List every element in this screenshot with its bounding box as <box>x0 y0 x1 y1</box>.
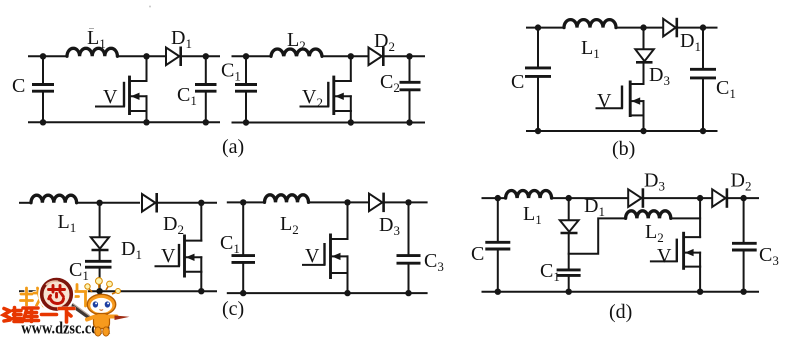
watermark: red text weiku yixia <box>4 308 75 323</box>
capacitor C1 (stage 2 input) <box>221 56 257 122</box>
node: L1/D1/D2 junction <box>96 200 102 206</box>
capacitor C1 (stage 2 input) <box>220 202 255 293</box>
svg-text:D3: D3 <box>644 170 665 194</box>
node: output top junction <box>203 53 209 59</box>
capacitor C3 <box>397 202 444 293</box>
diode D1 (vertical) <box>91 237 142 262</box>
capacitor C <box>471 198 510 292</box>
node: input top junction <box>535 24 541 30</box>
inductor L2 <box>265 195 309 237</box>
svg-text:D1: D1 <box>171 27 192 51</box>
wire: top rail right segment <box>727 197 758 199</box>
diode D1 (vertical) <box>560 195 605 233</box>
node: L1/D1/D3 junction <box>566 195 572 201</box>
label (a) <box>222 136 244 158</box>
node: output bottom junction <box>203 119 209 125</box>
diode D1 <box>663 18 701 54</box>
svg-text:(b): (b) <box>612 138 635 160</box>
watermark: mascot <box>85 278 130 337</box>
capacitor C3 <box>732 198 779 292</box>
node: input bottom junction <box>243 119 249 125</box>
node: L1/drain junction <box>143 53 149 59</box>
svg-text:L2: L2 <box>280 213 299 237</box>
diode D2 <box>369 30 395 66</box>
diode D3 (vertical) <box>635 49 670 88</box>
svg-text:L2: L2 <box>645 221 664 245</box>
svg-text:V: V <box>597 90 612 112</box>
node: source bottom junction <box>344 290 350 296</box>
wire: top rail left segment <box>527 27 564 29</box>
wire: L2 to drain vertical <box>671 217 700 219</box>
node: source bottom junction <box>697 289 703 295</box>
wire: top rail D3 to D2 <box>643 197 712 199</box>
node: source bottom junction <box>348 119 354 125</box>
watermark: magnifier handle <box>66 300 91 319</box>
transistor V (MOSFET) <box>96 56 147 122</box>
svg-text:C1: C1 <box>177 84 197 108</box>
svg-text:V: V <box>103 86 118 108</box>
wire: tee branch to L2 <box>569 218 626 253</box>
node: output top junction <box>700 24 706 30</box>
wire: top rail right segment <box>157 202 216 204</box>
wire: bottom rail <box>233 122 425 124</box>
capacitor C1 <box>540 260 581 292</box>
node: output top junction <box>405 199 411 205</box>
node: L2/drain junction <box>348 53 354 59</box>
node: source bottom junction <box>143 119 149 125</box>
label (b) <box>612 138 635 160</box>
wire: D3 cathode to drain <box>643 62 645 84</box>
wire: top rail middle segment <box>322 55 369 57</box>
watermark: character pian <box>70 285 87 307</box>
svg-text:L1: L1 <box>581 37 600 61</box>
svg-text:D1: D1 <box>121 238 142 262</box>
node: input top junction <box>40 53 46 59</box>
wire: top rail middle segment <box>552 197 629 199</box>
wire: bottom rail <box>483 291 759 293</box>
node: input bottom junction <box>40 119 46 125</box>
wire: bottom rail <box>228 292 427 294</box>
svg-text:V: V <box>161 245 176 267</box>
node: L2/drain junction <box>344 199 350 205</box>
inductor L1 <box>564 20 616 61</box>
wire: top rail middle segment <box>117 55 166 57</box>
inductor L2 <box>271 29 322 56</box>
svg-text:C1: C1 <box>716 77 736 101</box>
wire: bottom rail <box>20 290 216 292</box>
capacitor C2 <box>380 56 421 122</box>
diode D1 <box>166 27 192 66</box>
capacitor C1 <box>69 250 112 291</box>
svg-text:C3: C3 <box>424 250 444 274</box>
svg-text:L1: L1 <box>523 203 542 227</box>
wire: top rail left segment <box>228 201 265 203</box>
svg-text:(c): (c) <box>222 298 244 320</box>
inductor L1 <box>506 191 552 227</box>
svg-text:C: C <box>12 75 25 97</box>
node: output bottom junction <box>406 119 412 125</box>
node: C1 bottom junction <box>96 288 102 294</box>
diode D3 <box>628 170 665 208</box>
svg-text:D2: D2 <box>374 30 395 54</box>
speck artifact top <box>89 6 151 29</box>
svg-text:C3: C3 <box>759 244 779 268</box>
svg-text:(d): (d) <box>609 301 632 323</box>
transistor V (MOSFET) <box>597 81 644 132</box>
node: output bottom junction <box>740 289 746 295</box>
node: output top junction <box>406 53 412 59</box>
svg-text:V2: V2 <box>302 86 323 110</box>
wire: drain vertical <box>699 198 701 237</box>
svg-text:C1: C1 <box>220 232 240 256</box>
node: drain top junction <box>198 200 204 206</box>
wire: top rail left segment <box>233 55 272 57</box>
svg-text:D2: D2 <box>163 213 184 237</box>
transistor V (MOSFET) <box>303 202 348 293</box>
wire: D1 anode lead <box>568 198 570 220</box>
node: input bottom junction <box>535 128 541 134</box>
wire: top rail right segment <box>181 55 219 57</box>
wire: top rail right segment <box>677 27 717 29</box>
wire: bottom rail <box>29 121 219 123</box>
node: C1 bottom junction <box>566 289 572 295</box>
wire: top rail right segment <box>384 201 427 203</box>
watermark: character zhao <box>21 288 46 309</box>
node: drain top junction <box>697 195 703 201</box>
inductor L2 <box>626 211 671 245</box>
capacitor C1 (stage 1 output) <box>177 56 217 122</box>
wire: bottom rail <box>527 130 717 132</box>
wire: top rail middle segment <box>616 27 663 29</box>
svg-text:V: V <box>305 245 320 267</box>
wire: top rail left segment <box>483 197 506 199</box>
watermark: magnifier glass with xin <box>39 277 73 311</box>
node: input top junction <box>243 53 249 59</box>
wire: top rail left segment <box>29 55 67 57</box>
capacitor C1 <box>690 28 736 131</box>
node: output bottom junction <box>700 128 706 134</box>
wire: top rail right segment <box>383 55 424 57</box>
svg-text:V: V <box>657 245 672 267</box>
wire: top rail middle segment <box>309 201 370 203</box>
label (d) <box>609 301 632 323</box>
transistor V2 (MOSFET) <box>301 56 351 122</box>
svg-text:C1: C1 <box>540 260 560 284</box>
transistor V (MOSFET) <box>156 203 202 291</box>
label (c) <box>222 298 244 320</box>
capacitor C <box>12 56 54 122</box>
svg-text:L2: L2 <box>287 29 306 53</box>
inductor L1 <box>31 195 77 235</box>
diode D3 <box>369 193 400 238</box>
svg-text:C2: C2 <box>380 71 400 95</box>
diode D2 <box>712 170 751 208</box>
watermark: url text www.dzsc.com <box>21 319 110 337</box>
node: input top junction <box>240 199 246 205</box>
node: input top junction <box>495 195 501 201</box>
wire: D3 anode lead <box>643 28 645 50</box>
svg-text:C: C <box>511 71 524 93</box>
svg-text:D3: D3 <box>379 214 400 238</box>
node: input bottom junction <box>240 290 246 296</box>
node: output bottom junction <box>405 290 411 296</box>
wire: top rail middle segment <box>77 202 139 204</box>
svg-text:D1: D1 <box>680 30 701 54</box>
svg-text:D2: D2 <box>731 170 752 194</box>
node: L1/D3/D1 junction <box>640 24 646 30</box>
node: input bottom junction <box>495 289 501 295</box>
svg-text:(a): (a) <box>222 136 244 158</box>
wire: D1 anode lead <box>99 203 101 238</box>
wire: top rail left stub <box>20 202 31 204</box>
svg-text:C1: C1 <box>221 60 241 84</box>
svg-text:C: C <box>471 243 484 265</box>
node: output top junction <box>740 195 746 201</box>
wire: D1 cathode to C1 with tee <box>568 233 570 270</box>
svg-text:L1: L1 <box>87 27 106 51</box>
node: source bottom junction <box>640 128 646 134</box>
node: source bottom junction <box>198 288 204 294</box>
svg-text:D3: D3 <box>649 64 670 88</box>
diode D2 <box>142 193 184 237</box>
inductor L1 <box>67 27 117 56</box>
transistor V (MOSFET) <box>651 232 700 292</box>
svg-text:L1: L1 <box>58 211 77 235</box>
capacitor C <box>511 28 551 131</box>
